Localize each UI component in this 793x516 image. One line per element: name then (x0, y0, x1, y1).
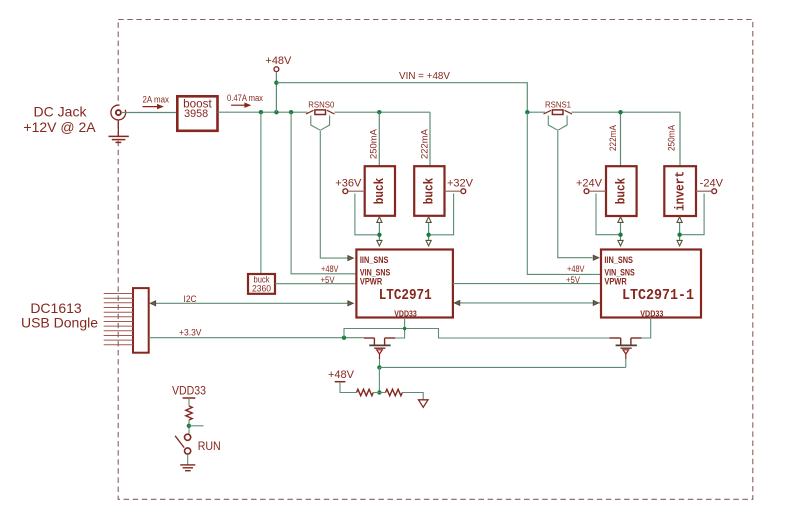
wire R1 to junction (373, 392, 385, 394)
ground (RUN switch) (180, 465, 195, 471)
power rail +48V (divider) (328, 369, 355, 382)
wire +48V terminal down to bus (275, 72, 277, 112)
svg-text:0.47A max: 0.47A max (227, 93, 263, 103)
wire jack to boost (121, 112, 177, 114)
block boost 3958 (177, 96, 217, 131)
svg-text:+12V @ 2A: +12V @ 2A (23, 119, 96, 135)
power terminal +24V (576, 178, 603, 194)
svg-text:IIN_SNS: IIN_SNS (360, 255, 389, 265)
svg-text:2A max: 2A max (143, 95, 170, 105)
svg-text:RUN: RUN (198, 439, 221, 453)
wire VIN = +48V top run to right section (276, 83, 527, 113)
svg-text:LTC2971-1: LTC2971-1 (622, 288, 694, 304)
wire +5V to LTC2971-1 VPWR (453, 283, 601, 285)
node RUN junction (187, 424, 191, 428)
svg-text:LTC2971: LTC2971 (379, 288, 432, 304)
transistor Q2 (610, 338, 642, 359)
block buck U3 (+32V) (414, 166, 444, 216)
wire R2 to ground (402, 393, 423, 400)
svg-text:VDD33: VDD33 (172, 385, 206, 397)
node +3.3V junction (342, 336, 346, 340)
arrowhead into IIN_SNS U1 (348, 256, 353, 261)
svg-text:USB Dongle: USB Dongle (21, 315, 98, 331)
svg-text:2360: 2360 (252, 284, 271, 294)
resistor R1 (357, 389, 374, 395)
svg-text:DC Jack: DC Jack (34, 103, 88, 119)
svg-text:+5V: +5V (321, 275, 335, 285)
wire RSNS0 sense down to IIN_SNS (320, 131, 348, 258)
block buck U2 (+36V) (365, 166, 395, 216)
svg-text:222mA: 222mA (419, 129, 429, 159)
node junction dots on bus (259, 110, 382, 114)
svg-text:+24V: +24V (576, 178, 603, 190)
arrowhead into U4 left edge (593, 301, 598, 306)
svg-text:222mA: 222mA (608, 125, 618, 151)
label DC1613 USB Dongle (21, 300, 98, 331)
svg-text:VPWR: VPWR (360, 277, 383, 287)
wire share line to Q2 gate (344, 329, 610, 339)
resistor R2 (386, 389, 403, 395)
arrowhead into IIN_SNS U4 (593, 255, 598, 260)
wire invert U6 output sense arrows (677, 217, 682, 246)
wire buck U5 output sense arrows (618, 217, 623, 246)
svg-text:250mA: 250mA (667, 125, 677, 151)
transistor Q1 (364, 338, 395, 359)
wire RSNS1 sense down to IIN_SNS U4 (558, 131, 593, 258)
node +48V branch (274, 81, 278, 85)
svg-text:VIN = +48V: VIN = +48V (399, 70, 450, 82)
svg-text:I2C: I2C (184, 294, 197, 304)
demo board dashed boundary (118, 20, 753, 500)
wire I2C dongle to U1 (155, 302, 348, 304)
wire +48V feed to LTC2971 VIN_SNS (291, 112, 356, 274)
wire Q1 source to Q2 source (379, 366, 625, 368)
IC U1 LTC2971 (356, 250, 453, 319)
wire VIN down to LTC2971-1 VIN_SNS (527, 112, 601, 274)
wire R3 to switch (188, 420, 190, 434)
connector J2 USB dongle header (104, 288, 149, 353)
svg-text:3958: 3958 (184, 108, 208, 120)
svg-text:IIN_SNS: IIN_SNS (604, 255, 633, 265)
node Q1 source junction (377, 365, 381, 369)
svg-text:invert: invert (673, 171, 687, 211)
resistor R3 (vertical) (186, 406, 192, 420)
arrowhead into U1 left edge (I2C) (348, 301, 353, 306)
wire 250mA branch to buck U2 (378, 112, 380, 166)
wire +48V rail to resistor R1 (340, 382, 357, 393)
svg-text:buck: buck (615, 177, 629, 204)
wire switch to ground (187, 454, 189, 465)
svg-text:+3.3V: +3.3V (179, 328, 202, 338)
node divider junction (377, 390, 381, 394)
switch S1 RUN (175, 434, 191, 454)
label DC Jack +12V @ 2A (23, 103, 96, 135)
svg-text:buck: buck (423, 177, 437, 204)
ground (divider) (419, 400, 429, 408)
svg-text:+48V: +48V (265, 55, 292, 67)
wire RUN stub (189, 425, 204, 427)
power rail VDD33 (RUN pull-up) (172, 385, 206, 398)
svg-text:VDD33: VDD33 (640, 309, 663, 318)
svg-text:RSNS1: RSNS1 (545, 100, 571, 110)
svg-text:VDD33: VDD33 (394, 309, 417, 318)
wire +36V to buck U2 and sense loop (348, 190, 365, 192)
wire VDD33 rail to resistor R3 (188, 398, 190, 406)
resistor RSNS0 (306, 100, 335, 131)
power terminal +32V (447, 178, 474, 194)
power terminal +36V (335, 178, 362, 194)
svg-text:-24V: -24V (700, 178, 724, 190)
arrowhead into J2 (I2C) (150, 301, 155, 306)
power terminal -24V (700, 178, 724, 194)
ground (DC jack) (109, 136, 129, 142)
arrowhead into U1 right edge (454, 301, 459, 306)
annotation 2A max arrow (143, 95, 170, 110)
block buck U5 (+24V) (606, 166, 637, 216)
wire VDD33 U1 down to Q1 drain (395, 318, 404, 339)
wire VDD33 U4 down to Q2 drain (642, 318, 651, 339)
wire RSNS1 sense branch: bus right section (527, 112, 680, 166)
block invert U6 (-24V) (664, 166, 696, 216)
wire boost output +48V bus (left) (218, 112, 431, 166)
block buck 2360 (248, 274, 275, 294)
IC U4 LTC2971-1 (601, 250, 701, 319)
svg-text:+48V: +48V (321, 264, 339, 274)
wire bus down to buck 2360 (260, 112, 262, 274)
wire buck U3 output sense arrows (426, 217, 431, 246)
wire buck U2 output sense arrows (377, 217, 382, 246)
connector J1 DC jack (110, 103, 127, 136)
svg-text:250mA: 250mA (369, 129, 379, 159)
svg-text:+48V: +48V (567, 264, 585, 274)
svg-text:RSNS0: RSNS0 (308, 100, 334, 110)
node VDD33 share crossing (403, 327, 406, 330)
svg-text:VPWR: VPWR (604, 277, 627, 287)
svg-text:+36V: +36V (335, 178, 362, 190)
wire -24V from invert U6 and sense loop (696, 190, 712, 192)
wire +32V to buck U3 and sense loop (445, 190, 461, 192)
wire I2C bus between U1 and U4 (454, 302, 600, 304)
annotation 0.47A max arrow (227, 93, 263, 108)
wire Q2 source down to share wire (625, 359, 627, 367)
svg-text:buck: buck (373, 177, 387, 204)
wire +24V to buck U5 and sense loop (589, 190, 606, 192)
wire +3.3V dongle to Q1 (149, 337, 364, 339)
wire Q1 source down to junction (379, 359, 381, 367)
svg-text:+32V: +32V (447, 178, 474, 190)
power terminal +48V (265, 55, 292, 72)
wire +5V buck2360 to LTC2971 VPWR (275, 283, 356, 285)
svg-text:+5V: +5V (566, 275, 580, 285)
node junction dots right bus (525, 110, 623, 114)
wire junction down to divider (378, 367, 380, 392)
svg-text:+48V: +48V (328, 369, 355, 381)
resistor RSNS1 (544, 100, 573, 131)
